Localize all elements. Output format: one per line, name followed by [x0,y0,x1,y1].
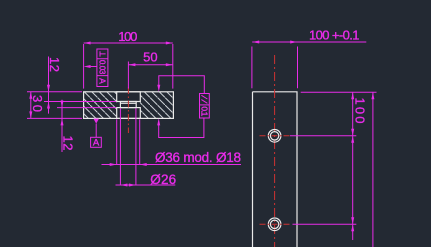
hole 2 inner circle [270,220,278,228]
dim 100 arrow left [84,42,91,45]
extension line hole1 center [290,135,356,137]
dim line d36 mod d18 [102,164,242,166]
d18 pair extension line right [135,108,137,185]
dim 100+-0.1 arrow left [252,41,259,44]
dim 100 line [84,42,173,44]
hole 2 red cross line [260,223,290,225]
datum A box [91,137,102,147]
dim 100+-0.1 line with tail [252,41,366,43]
dim 30 line [30,92,32,119]
dim 50 line [128,64,172,66]
red centerline of hole (section view) [127,87,129,133]
hole bottom recess (d26) [117,108,141,119]
d26 pair extension line right [139,119,141,164]
hole neck (d18) [120,102,136,108]
step extension line y=101.6 [44,101,116,103]
dim 50 arrow left [128,63,135,66]
line1 arrow below hole2 (points up) [351,224,354,231]
front view plate outline [253,92,298,247]
dim 100/50 shared extension line right [172,44,174,89]
step extension line y=107 [57,107,116,109]
parallelism bottom leader arrow [157,118,160,125]
dim 12 bottom arrow upper (points down) [61,101,64,108]
svg-text:100: 100 [118,29,137,44]
line2 arrow top (points up) [371,92,374,99]
svg-text:100 +-0.1: 100 +-0.1 [309,28,360,43]
dim 50 extension line (center) [127,62,129,89]
hole top recess (d26 counterbore) [117,92,141,102]
dim 100+-0.1 extension line left [251,47,253,89]
svg-text:0.03: 0.03 [98,60,107,75]
d26 pair extension line left [116,119,118,164]
extension line plate top right [301,91,377,93]
datum A stem [95,124,97,138]
dim 30 extension line bottom [27,117,82,119]
dim 100+-0.1 arrow right [290,41,297,44]
svg-text:0.1: 0.1 [200,106,210,116]
d26 arrow left (points left) [120,184,127,187]
line1 arrow top (points up) [351,92,354,99]
dim 50 arrow right [166,63,173,66]
line1 arrow below hole1 (points up) [351,136,354,143]
extension line hole2 center [293,223,357,225]
hole 1 red cross line [260,135,290,137]
right dim line 2 [372,92,374,247]
dim 12 top arrow lower (points up) [47,102,50,109]
hole 1 outer circle [268,130,281,143]
dim 100+-0.1 extension line right [297,47,299,89]
d36 arrow right (outside, points left) [140,163,147,166]
svg-text:A: A [93,138,100,149]
parallelism top leader arrow [157,85,160,92]
dim 12 top: dim line [48,57,50,114]
d36 arrow left (outside, points right) [110,163,117,166]
dim 100 top: extension line left [83,44,85,89]
svg-text:Ø36 mod. Ø18: Ø36 mod. Ø18 [155,150,241,165]
svg-text:50: 50 [143,49,158,64]
perpendicularity leader arrow [84,65,91,68]
dim line d26 [116,184,176,186]
dim 12 bottom: dim line [61,100,63,152]
svg-text:Ø26: Ø26 [150,172,176,187]
right dim line 1 (stacked) [352,92,354,240]
hole 2 outer circle [268,218,281,231]
front view red centerline [274,55,276,247]
hole 1 inner circle [270,132,278,140]
section view part: hatched right block [140,92,174,119]
parallelism bottom leader [159,118,204,138]
perpendicularity leader to left face extension [91,66,97,68]
line1 arrow at hole2 (points down) [351,217,354,224]
part outline rectangle [84,92,174,119]
neck inner top line [120,102,136,104]
svg-text:100: 100 [353,98,368,124]
line1 arrow at hole1 (points down) [351,129,354,136]
dim 12 top arrow upper (points down) [47,85,50,92]
parallelism top leader [159,76,205,94]
dim 30 arrow top [29,92,32,99]
svg-text:A: A [97,78,107,84]
datum A triangle on bottom face [93,119,99,124]
dim 30 extension line top [27,91,82,93]
dim 100 arrow right [166,42,173,45]
svg-text:12: 12 [47,57,62,72]
section view part: hatched left block [84,92,117,119]
d18 pair extension line left [119,108,121,185]
svg-text:12: 12 [60,136,75,151]
d26 arrow right (points right) [129,184,136,187]
perpendicularity feature control frame [97,49,108,87]
dim 30 arrow bottom [29,111,32,118]
parallelism feature control frame [200,94,210,119]
dim 12 bottom arrow lower (points up) [61,118,64,125]
